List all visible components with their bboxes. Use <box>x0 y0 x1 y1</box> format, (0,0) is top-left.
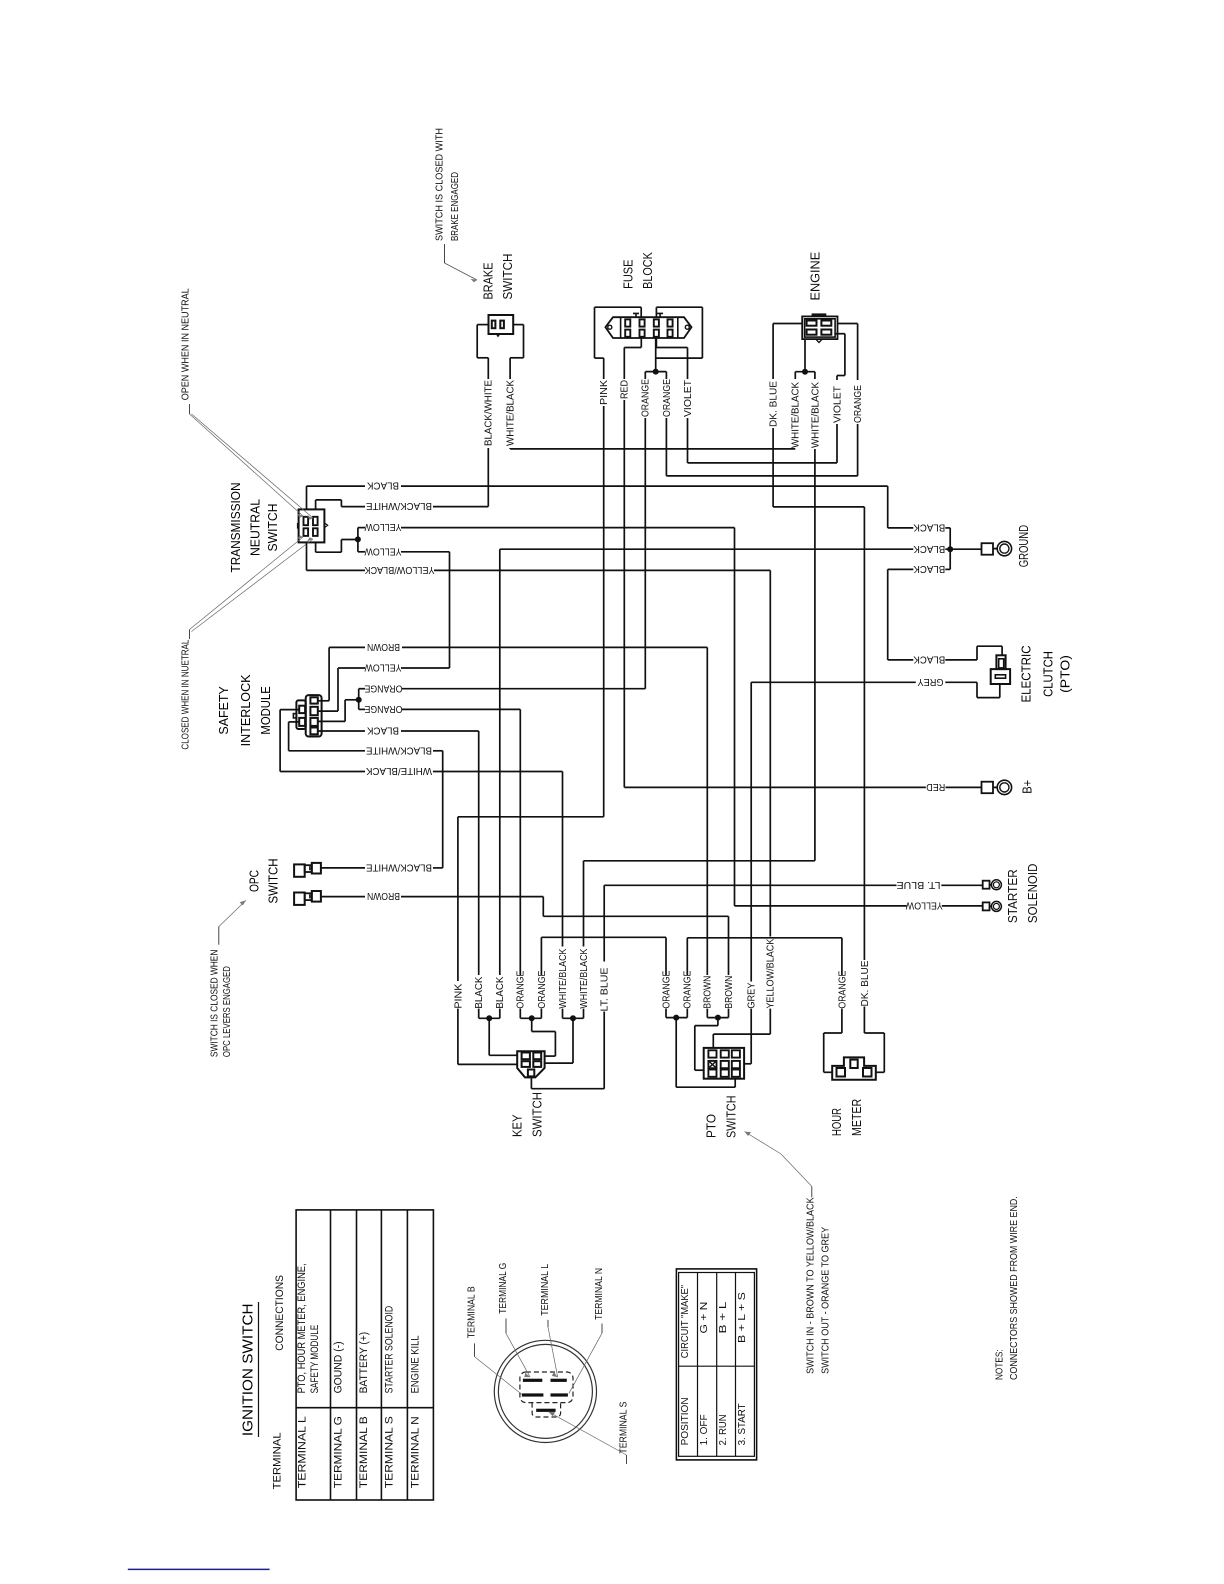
wire BLACK key2 from ground line <box>499 549 501 975</box>
svg-text:PTO: PTO <box>704 1114 718 1138</box>
fuse orange junction <box>645 338 666 379</box>
svg-text:CLOSED WHEN IN NUETRAL: CLOSED WHEN IN NUETRAL <box>180 639 191 749</box>
svg-text:B + L + S: B + L + S <box>737 1292 748 1343</box>
electric clutch label <box>1020 645 1073 702</box>
svg-text:GREY: GREY <box>747 982 758 1008</box>
svg-text:PINK: PINK <box>453 983 464 1008</box>
svg-text:CIRCUIT "MAKE": CIRCUIT "MAKE" <box>680 1284 691 1358</box>
svg-text:YELLOW: YELLOW <box>364 521 401 532</box>
svg-text:TERMINAL N: TERMINAL N <box>410 1416 422 1488</box>
svg-text:INTERLOCK: INTERLOCK <box>239 674 253 747</box>
svg-text:BLACK/WHITE: BLACK/WHITE <box>366 862 432 873</box>
OPC switch connector 1 <box>294 863 321 877</box>
wire WHITE/BLACK sim to key <box>433 772 563 947</box>
wire ORANGE pto2 rise <box>687 938 842 975</box>
svg-text:TERMINAL B: TERMINAL B <box>466 1286 477 1338</box>
leader open-when <box>190 404 314 520</box>
svg-text:OPC LEVERS ENGAGED: OPC LEVERS ENGAGED <box>222 966 233 1057</box>
wire GREY clutch <box>751 681 916 683</box>
electric clutch connector <box>991 655 1010 684</box>
svg-text:TERMINAL: TERMINAL <box>272 1432 284 1489</box>
terminal N label <box>569 1268 605 1394</box>
wire brake loop right <box>510 325 523 379</box>
engine VIOLET jog <box>835 334 845 380</box>
svg-text:G + N: G + N <box>699 1302 710 1334</box>
position table header row <box>680 1284 691 1445</box>
wire VIOLET engine down <box>836 424 838 463</box>
svg-text:METER: METER <box>850 1099 864 1136</box>
bottom blue line <box>128 1568 270 1570</box>
ignition table grid <box>296 1210 433 1500</box>
wire WHITE/BLACK brake to engine <box>510 447 795 450</box>
PTO BROWN bracket <box>695 1009 729 1071</box>
wire DK. BLUE to hour meter <box>773 428 864 960</box>
svg-text:TERMINAL N: TERMINAL N <box>594 1268 605 1320</box>
wire BLACK tns to ground <box>401 486 888 528</box>
svg-text:TERMINAL S: TERMINAL S <box>618 1401 629 1453</box>
terminal L label <box>540 1263 558 1377</box>
svg-text:OPC: OPC <box>247 870 261 892</box>
wire YELLOW/BLACK TNS exit <box>307 542 366 570</box>
ignition table row terminal L <box>296 1263 321 1488</box>
svg-text:WHITE/BLACK: WHITE/BLACK <box>558 948 569 1008</box>
note: switch is closed with brake engaged <box>434 128 461 241</box>
safety interlock module label <box>217 674 273 747</box>
svg-text:SWITCH OUT - ORANGE TO GREY: SWITCH OUT - ORANGE TO GREY <box>820 1227 831 1374</box>
wire BLACK/WHITE TNS exit <box>316 500 365 510</box>
svg-text:TERMINAL L: TERMINAL L <box>297 1416 309 1488</box>
leader brake note <box>445 244 478 282</box>
svg-text:BROWN: BROWN <box>367 890 400 901</box>
svg-text:NEUTRAL: NEUTRAL <box>248 499 262 556</box>
wire PINK into key switch <box>458 1009 517 1065</box>
wire LT. BLUE to terminal <box>941 884 982 886</box>
svg-text:BLACK: BLACK <box>474 976 485 1008</box>
OPC switch label <box>247 858 280 903</box>
svg-text:YELLOW: YELLOW <box>364 662 401 673</box>
starter terminal LT BLUE <box>983 880 1002 890</box>
wire BROWN OPC <box>321 896 365 898</box>
svg-text:2. RUN: 2. RUN <box>718 1414 729 1445</box>
wire ORANGE branch1 to SIM <box>644 418 646 689</box>
ignition table row terminal B <box>358 1332 370 1488</box>
ignition table row terminal N <box>410 1335 422 1488</box>
terminal blade B <box>523 1379 542 1382</box>
starter solenoid label <box>1006 864 1040 924</box>
terminal cluster dashed outline <box>520 1372 573 1417</box>
svg-text:ORANGE: ORANGE <box>364 703 402 714</box>
svg-text:BLACK: BLACK <box>367 725 399 736</box>
OPC switch connector 2 <box>294 891 321 905</box>
hour meter label <box>830 1099 864 1136</box>
wire BLACK/WHITE tns-brake <box>433 506 488 508</box>
svg-text:PTO, HOUR METER, ENGINE,: PTO, HOUR METER, ENGINE, <box>296 1263 308 1393</box>
svg-text:CLUTCH: CLUTCH <box>1041 651 1055 697</box>
engine connector <box>802 313 837 342</box>
svg-text:ORANGE: ORANGE <box>683 970 694 1008</box>
wire BLACK/WHITE SIM exit <box>289 722 365 751</box>
engine ORANGE exit <box>838 324 858 381</box>
wire BLACK clutch loop <box>945 646 1002 660</box>
svg-text:TRANSMISSION: TRANSMISSION <box>229 483 243 573</box>
PTO ORANGE bracket <box>666 1009 735 1088</box>
svg-text:SOLENOID: SOLENOID <box>1026 864 1040 924</box>
svg-text:TERMINAL G: TERMINAL G <box>498 1263 509 1314</box>
wire DK. BLUE hour loop <box>864 1007 884 1073</box>
leader closed-when <box>190 535 314 639</box>
wire BLACK/WHITE OPC <box>321 867 365 869</box>
wire WHITE/BLACK engine2 down <box>814 449 816 861</box>
wire BLACK/WHITE brake to TNS <box>487 448 489 507</box>
svg-text:STARTER: STARTER <box>1006 869 1020 923</box>
wire RED to ring <box>946 786 982 788</box>
terminal G label <box>498 1263 530 1378</box>
svg-text:POSITION: POSITION <box>680 1397 691 1445</box>
ignition table row terminal S <box>384 1306 396 1488</box>
wire WHITE/BLACK to key area <box>584 861 815 947</box>
key ORANGE bracket <box>520 1009 555 1057</box>
wire GREY into PTO <box>744 1009 751 1064</box>
engine white/black junction <box>795 339 815 379</box>
fuse block label <box>622 252 656 289</box>
svg-text:GREY: GREY <box>917 676 943 687</box>
wire VIOLET to engine <box>688 418 838 463</box>
svg-text:YELLOW: YELLOW <box>905 900 942 911</box>
svg-text:SWITCH: SWITCH <box>531 1092 545 1137</box>
svg-text:ORANGE: ORANGE <box>516 970 527 1008</box>
svg-text:IGNITION SWITCH: IGNITION SWITCH <box>240 1303 256 1436</box>
svg-text:SWITCH: SWITCH <box>725 1096 739 1139</box>
note: switch is closed when opc levers engaged <box>209 950 233 1058</box>
starter terminal YELLOW <box>983 901 1002 911</box>
wire ORANGE hour loop <box>824 1009 842 1073</box>
fuse block connector <box>605 313 691 338</box>
svg-text:STARTER SOLENOID: STARTER SOLENOID <box>384 1306 396 1394</box>
wire YELLOW/BLACK into PTO <box>713 1009 770 1048</box>
svg-text:BLACK: BLACK <box>913 543 945 554</box>
svg-text:YELLOW/BLACK: YELLOW/BLACK <box>364 564 434 575</box>
svg-text:SWITCH: SWITCH <box>266 858 280 903</box>
key switch connector <box>517 1051 544 1077</box>
svg-text:ORANGE: ORANGE <box>661 970 672 1008</box>
svg-text:SWITCH: SWITCH <box>501 254 515 300</box>
position table row 3 start <box>737 1292 748 1446</box>
svg-text:OPEN WHEN IN NEUTRAL: OPEN WHEN IN NEUTRAL <box>180 288 191 400</box>
svg-text:SWITCH IS CLOSED WITH: SWITCH IS CLOSED WITH <box>434 128 445 241</box>
svg-text:PINK: PINK <box>599 380 610 405</box>
svg-text:WHITE/BLACK: WHITE/BLACK <box>791 382 802 448</box>
wire BLACK sim to key <box>401 731 479 975</box>
svg-text:BLOCK: BLOCK <box>641 252 655 289</box>
svg-text:DK. BLUE: DK. BLUE <box>860 960 871 1006</box>
svg-text:RED: RED <box>926 781 945 792</box>
svg-text:B + L: B + L <box>718 1301 729 1333</box>
svg-text:BLACK: BLACK <box>495 976 506 1008</box>
wire YELLOW sim join <box>401 667 450 669</box>
leader opc note <box>219 900 246 944</box>
wire DK. BLUE engine exit <box>773 324 802 380</box>
wire BROWN to PTO <box>402 647 707 975</box>
svg-text:ORANGE: ORANGE <box>641 379 652 417</box>
svg-text:BROWN: BROWN <box>703 976 714 1009</box>
wire YELLOW/BLACK to PTO <box>434 570 770 936</box>
wire YELLOW2 to SIM yellow <box>401 552 450 668</box>
svg-text:TERMINAL S: TERMINAL S <box>384 1416 396 1488</box>
leader switch in/out <box>781 1154 812 1197</box>
ignition table headers <box>272 1275 287 1489</box>
svg-text:WHITE/BLACK: WHITE/BLACK <box>506 380 517 446</box>
svg-text:BLACK: BLACK <box>367 480 399 491</box>
ignition switch rear view circle <box>494 1340 596 1442</box>
svg-text:VIOLET: VIOLET <box>683 380 694 417</box>
wire PINK down to corner <box>458 406 604 981</box>
wire BLACK to clutch <box>888 569 914 660</box>
svg-text:TERMINAL L: TERMINAL L <box>540 1263 551 1315</box>
terminal blade L <box>522 1393 544 1396</box>
svg-text:ENGINE KILL: ENGINE KILL <box>410 1335 422 1393</box>
svg-text:(PTO): (PTO) <box>1059 655 1073 693</box>
wire BROWN SIM exit <box>318 647 365 700</box>
svg-text:KEY: KEY <box>511 1114 525 1137</box>
wire PINK fuse loop <box>595 307 642 379</box>
svg-text:BLACK: BLACK <box>913 654 945 665</box>
svg-text:ENGINE: ENGINE <box>808 252 822 301</box>
svg-text:3. START: 3. START <box>737 1403 748 1445</box>
svg-text:WHITE/BLACK: WHITE/BLACK <box>366 765 432 776</box>
hour meter connector <box>832 1057 876 1079</box>
svg-text:WHITE/BLACK: WHITE/BLACK <box>810 382 821 448</box>
wire LT. BLUE key <box>603 885 605 961</box>
svg-text:CONNECTORS SHOWED FROM WIRE EN: CONNECTORS SHOWED FROM WIRE END. <box>1009 1196 1020 1380</box>
ground bracket <box>500 528 982 570</box>
transmission neutral switch connector <box>297 509 328 542</box>
svg-text:NOTES:: NOTES: <box>994 1349 1005 1380</box>
wire ORANGE sim1 to fuse <box>402 688 645 690</box>
PTO switch connector <box>704 1048 744 1079</box>
position table row 2 run <box>718 1301 729 1445</box>
wire BLACK TNS exit <box>307 486 366 509</box>
wire BROWN opc to PTO <box>401 897 729 975</box>
wire YELLOW SIM exit <box>318 668 365 711</box>
wire YELLOW to starter terminal <box>942 905 983 907</box>
svg-text:1. OFF: 1. OFF <box>699 1414 710 1445</box>
wire ORANGE engine down <box>857 424 859 476</box>
svg-text:BLACK/WHITE: BLACK/WHITE <box>366 744 432 755</box>
wire GREY pto <box>750 682 752 981</box>
svg-text:ORANGE: ORANGE <box>364 682 402 693</box>
ground ring terminal <box>982 541 1012 555</box>
svg-text:BROWN: BROWN <box>367 641 400 652</box>
safety interlock module connector <box>293 695 321 736</box>
wire ORANGE key2 rise <box>541 937 666 975</box>
key switch label <box>511 1092 545 1137</box>
ignition table row terminal G <box>333 1341 345 1488</box>
svg-text:BLACK/WHITE: BLACK/WHITE <box>484 380 495 446</box>
brake switch label <box>481 254 515 300</box>
PTO switch label <box>704 1096 738 1139</box>
svg-text:YELLOW/BLACK: YELLOW/BLACK <box>766 938 777 1008</box>
TNS yellow feed <box>316 528 365 553</box>
svg-text:SWITCH: SWITCH <box>266 504 280 552</box>
wire WHITE/BLACK SIM exit <box>280 710 365 772</box>
svg-text:BLACK/WHITE: BLACK/WHITE <box>366 500 432 511</box>
svg-text:GROUND: GROUND <box>1017 525 1031 567</box>
svg-text:TERMINAL G: TERMINAL G <box>333 1416 345 1488</box>
wire ORANGE branch2 to engine <box>666 418 857 476</box>
svg-text:CONNECTIONS: CONNECTIONS <box>274 1275 286 1351</box>
SIM orange junction <box>318 689 365 722</box>
terminal B label <box>466 1286 522 1394</box>
svg-text:HOUR: HOUR <box>830 1108 844 1136</box>
svg-text:ORANGE: ORANGE <box>853 385 864 423</box>
brake switch connector <box>489 315 514 336</box>
position table grid <box>679 1273 755 1457</box>
key WHITE/BLACK bracket <box>545 1009 584 1064</box>
leader pto switch <box>745 1132 782 1155</box>
wire YELLOW to starter <box>401 528 907 906</box>
svg-text:DK. BLUE: DK. BLUE <box>769 381 780 427</box>
svg-text:SAFETY: SAFETY <box>217 686 231 735</box>
wire LT. BLUE to starter <box>604 884 896 886</box>
wire brake loop left <box>477 325 523 379</box>
svg-text:SWITCH IN - BROWN TO YELLOW/BL: SWITCH IN - BROWN TO YELLOW/BLACK <box>805 1197 816 1374</box>
wire RED fuse exit <box>624 338 641 379</box>
wire RED to B+ <box>624 400 926 787</box>
svg-text:VIOLET: VIOLET <box>832 386 843 423</box>
svg-text:BRAKE: BRAKE <box>481 263 495 300</box>
terminal blade G <box>551 1379 567 1382</box>
svg-text:BATTERY (+): BATTERY (+) <box>358 1332 370 1394</box>
svg-text:WHITE/BLACK: WHITE/BLACK <box>579 948 590 1008</box>
svg-text:ORANGE: ORANGE <box>662 379 673 417</box>
notes <box>994 1196 1020 1380</box>
wire BLACK/WHITE sim to OPC <box>433 751 443 868</box>
position table border <box>676 1269 756 1460</box>
transmission neutral switch label <box>229 483 280 573</box>
svg-text:SWITCH IS CLOSED WHEN: SWITCH IS CLOSED WHEN <box>209 950 220 1058</box>
terminal blade N <box>551 1393 568 1396</box>
position table row 1 off <box>699 1302 710 1446</box>
fuse right box <box>656 307 703 358</box>
svg-text:ORANGE: ORANGE <box>837 970 848 1008</box>
svg-text:BRAKE ENGAGED: BRAKE ENGAGED <box>450 172 461 241</box>
key BLACK bracket <box>479 1009 518 1056</box>
svg-text:RED: RED <box>620 380 631 399</box>
svg-text:SAFETY MODULE: SAFETY MODULE <box>309 1325 321 1394</box>
svg-text:FUSE: FUSE <box>622 259 636 288</box>
svg-text:MODULE: MODULE <box>259 686 273 734</box>
svg-text:BROWN: BROWN <box>724 976 735 1009</box>
wire BLACK/WHITE opc join <box>433 867 443 869</box>
svg-text:BLACK: BLACK <box>913 522 945 533</box>
note: switch in/out <box>805 1197 831 1374</box>
wire GREY clutch loop <box>945 682 1000 697</box>
terminal S label <box>549 1401 630 1464</box>
svg-text:LT. BLUE: LT. BLUE <box>600 967 611 1011</box>
svg-text:ORANGE: ORANGE <box>537 970 548 1008</box>
wire BLACK SIM exit <box>318 730 365 732</box>
B+ ring terminal <box>982 780 1012 794</box>
svg-text:LT. BLUE: LT. BLUE <box>896 879 940 890</box>
svg-text:B+: B+ <box>1020 780 1034 794</box>
svg-text:GOUND (-): GOUND (-) <box>333 1341 345 1393</box>
svg-text:BLACK: BLACK <box>913 563 945 574</box>
wire VIOLET fuse exit <box>656 338 687 379</box>
svg-text:TERMINAL B: TERMINAL B <box>358 1416 370 1488</box>
svg-text:YELLOW: YELLOW <box>364 545 401 556</box>
ignition switch title <box>240 1302 258 1437</box>
svg-text:ELECTRIC: ELECTRIC <box>1020 645 1034 702</box>
wire LT. BLUE into key switch <box>531 1012 604 1089</box>
terminal blade S <box>536 1409 555 1412</box>
wire ORANGE sim2 to key <box>402 709 520 975</box>
